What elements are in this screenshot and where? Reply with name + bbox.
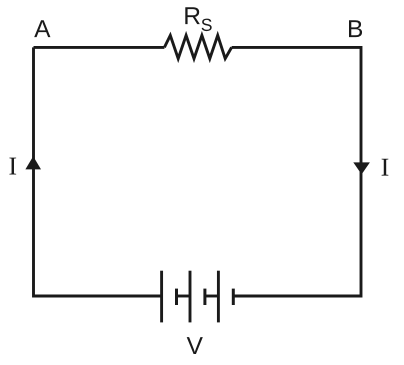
- battery V cell3 short plate: [232, 289, 235, 305]
- current arrow down (right wire): [353, 162, 370, 174]
- node label A: [34, 20, 50, 37]
- resistor label subscript S: [202, 19, 212, 31]
- battery label V: [187, 337, 203, 354]
- wire cell1 to cell2: [177, 295, 191, 298]
- battery V cell3 long plate: [217, 271, 220, 323]
- battery V cell1 short plate: [175, 289, 178, 305]
- current arrow up (left wire): [25, 156, 41, 169]
- current label I (left): [9, 158, 16, 175]
- battery V cell2 short plate: [203, 289, 206, 305]
- wire top-left (node A to resistor): [34, 46, 165, 49]
- wire resistor to node B and right side down to battery: [232, 47, 361, 296]
- wire cell2 to cell3: [205, 295, 219, 298]
- battery V cell1 long plate: [160, 271, 163, 323]
- battery V cell2 long plate: [189, 271, 192, 323]
- resistor R_s: [164, 35, 231, 58]
- current label I (right): [382, 159, 389, 176]
- resistor label R: [185, 7, 200, 24]
- node label B: [349, 20, 362, 37]
- wire bottom-left from battery to node A: [34, 47, 162, 296]
